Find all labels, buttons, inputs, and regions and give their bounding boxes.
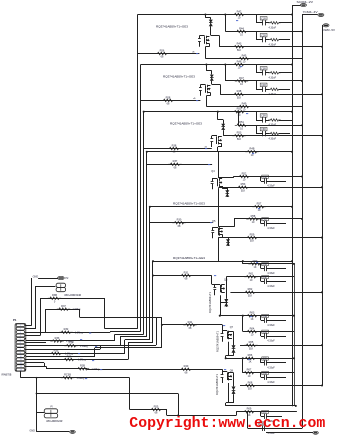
- resistor R3A: [76, 364, 100, 371]
- wire Q5 drain lead: [219, 207, 235, 227]
- svg-text:(P): (P): [50, 406, 53, 408]
- svg-text:R65: R65: [249, 340, 254, 344]
- wire block4 row3: [218, 186, 323, 188]
- capacitor C2A snubber: [256, 65, 292, 80]
- resistor R40 gate: [179, 364, 192, 374]
- resistor R45 source: [237, 53, 250, 63]
- label U2 part number: [163, 75, 196, 79]
- svg-text:R46: R46: [237, 59, 242, 63]
- svg-text:9: 9: [20, 352, 21, 354]
- label U6 part number: [173, 256, 206, 260]
- wire bundle line 1: [137, 15, 139, 329]
- wire block3 row2 feed: [238, 112, 240, 126]
- wire block2 row3: [220, 93, 323, 95]
- wire Q3 source lead: [218, 144, 222, 152]
- wire block1 row2: [225, 30, 303, 32]
- transistor Q1: [198, 36, 209, 47]
- wire Q2 source lead: [206, 93, 210, 107]
- resistor R68 51K: [243, 380, 256, 390]
- svg-text:Copyright:www.eccn.com: Copyright:www.eccn.com: [129, 416, 325, 432]
- wire block2 source row: [206, 106, 302, 108]
- svg-text:R67: R67: [247, 368, 252, 372]
- wire Q8 drain vertical: [233, 373, 235, 387]
- svg-text:RQ3741AB59+T1: RQ3741AB59+T1: [208, 291, 212, 313]
- wire block7 gate row: [162, 325, 223, 331]
- resistor R31 gate: [179, 270, 192, 280]
- wire block2 row2 feed: [225, 65, 227, 82]
- svg-text:1K: 1K: [249, 360, 252, 363]
- svg-text:R61: R61: [249, 272, 254, 276]
- wire block6 gate row: [152, 275, 215, 285]
- wire block1 top rail: [138, 13, 294, 15]
- svg-text:4.33uF: 4.33uF: [267, 272, 275, 275]
- wire bundle line 6: [152, 261, 154, 342]
- wire Q2 drain lead: [206, 65, 211, 71]
- label U6 vertical: [208, 291, 212, 313]
- capacitor C3F: [261, 275, 287, 288]
- capacitor C1B snubber: [256, 31, 290, 46]
- wire Q5 source lead: [218, 237, 220, 261]
- wire Q6 source lead: [219, 295, 221, 316]
- diode D1 tvs: [209, 19, 213, 26]
- svg-text:1K: 1K: [251, 318, 254, 321]
- label Q4 refdes: [211, 170, 215, 173]
- wire Q7 drain vertical: [233, 332, 235, 346]
- wire block3 top rail: [144, 111, 293, 113]
- svg-text:8: 8: [20, 349, 21, 351]
- connector P2: [58, 276, 69, 280]
- svg-text:4.33uF: 4.33uF: [267, 227, 275, 230]
- wire pin4 riser: [26, 298, 41, 335]
- resistor R52: [237, 171, 250, 181]
- wire block8 row3: [240, 384, 323, 386]
- svg-text:R3B: R3B: [52, 293, 57, 297]
- label P3 partnum: [46, 421, 63, 423]
- svg-text:C37: C37: [263, 412, 268, 414]
- wire block3 row3: [232, 135, 323, 137]
- wire block6 row2: [226, 276, 294, 278]
- connector P3 lower: [44, 406, 58, 418]
- svg-text:R3B: R3B: [80, 364, 85, 368]
- wire D4 links: [222, 186, 227, 197]
- svg-text:R53: R53: [237, 131, 242, 135]
- transistor Q8: [221, 372, 232, 384]
- wire Q3 drain to row3: [223, 120, 231, 136]
- svg-text:7: 7: [20, 346, 21, 348]
- svg-text:4: 4: [20, 335, 21, 337]
- svg-text:RQ3741AB59+T1+GE3: RQ3741AB59+T1+GE3: [156, 25, 189, 29]
- resistor R37 gate: [168, 159, 181, 169]
- wire route W2 pin3: [26, 332, 141, 333]
- wire route WB2: [130, 378, 168, 416]
- label block1 pin d: [192, 51, 195, 53]
- wire Q4 source lead: [218, 188, 220, 207]
- svg-text:1.0Meg: 1.0Meg: [77, 378, 85, 380]
- resistor R32: [59, 327, 83, 334]
- resistor R69 1K: [242, 407, 255, 417]
- diode D2 tvs: [210, 74, 214, 81]
- wire block5 top rail: [149, 206, 293, 208]
- wire bottom tag wire: [266, 432, 313, 434]
- svg-text:R42: R42: [237, 9, 242, 13]
- wire bottom row C3B2: [248, 412, 303, 429]
- transistor Q4: [211, 178, 222, 189]
- label GND top: [33, 276, 39, 279]
- label blue annotations: [78, 20, 260, 379]
- resistor R62 51K: [243, 287, 256, 297]
- svg-text:7CM4-.4V: 7CM4-.4V: [303, 10, 318, 14]
- svg-text:R33: R33: [55, 336, 60, 340]
- resistor R53b 51K: [236, 182, 249, 192]
- diode D6 tvs: [224, 299, 228, 307]
- wire block1 source row: [205, 58, 302, 60]
- svg-text:51K: 51K: [237, 138, 242, 141]
- label Q8 refdes: [230, 369, 234, 372]
- resistor R48 51K: [232, 89, 245, 99]
- diode D8 tvs: [232, 386, 236, 394]
- svg-text:R52: R52: [242, 171, 247, 175]
- svg-text:R64: R64: [250, 326, 255, 330]
- resistor R66 1K: [243, 353, 256, 363]
- svg-text:4.33uF: 4.33uF: [269, 137, 277, 140]
- wire block1 row2 feed: [225, 15, 227, 32]
- resistor R35: [49, 348, 73, 355]
- resistor R47: [235, 76, 248, 86]
- svg-text:R51: R51: [239, 120, 244, 124]
- capacitor C35: [261, 357, 287, 370]
- label P1 partnum: [2, 374, 12, 377]
- svg-text:11: 11: [20, 359, 22, 361]
- wire route W5 pin9: [26, 340, 150, 354]
- resistor R41 gate: [183, 320, 196, 330]
- svg-text:R37: R37: [61, 304, 66, 308]
- svg-text:R41: R41: [188, 320, 193, 324]
- wire pin12 stub: [26, 363, 45, 367]
- svg-text:13: 13: [20, 366, 22, 368]
- svg-text:51K: 51K: [248, 388, 253, 391]
- wire tag1 lead: [292, 5, 300, 7]
- wire net VCC bus: [292, 5, 294, 406]
- wire block4 top rail: [146, 151, 293, 153]
- resistor R58 gate: [161, 95, 174, 105]
- wire bundle line 2: [140, 65, 142, 332]
- svg-text:R56: R56: [160, 48, 165, 52]
- svg-text:RQ3741AB59+T1+GE3: RQ3741AB59+T1+GE3: [163, 75, 196, 79]
- wire Q1 drain to row3: [211, 18, 220, 47]
- label U3 part number: [170, 122, 203, 126]
- wire block7 row2 feed: [242, 316, 244, 332]
- label U1 part number: [156, 25, 189, 29]
- resistor R58b: [246, 214, 259, 224]
- capacitor C37: [261, 410, 283, 423]
- wire block7 row1: [220, 315, 295, 317]
- diode D4 tvs: [225, 190, 229, 197]
- wire route W0 pin3 riser: [26, 309, 46, 332]
- svg-text:1K: 1K: [254, 266, 257, 269]
- svg-text:1.0Meg: 1.0Meg: [92, 369, 100, 371]
- svg-text:C1R: C1R: [261, 18, 266, 20]
- wire route W1: [40, 298, 138, 329]
- svg-text:R43: R43: [237, 42, 242, 46]
- resistor R38 gate: [167, 143, 180, 153]
- resistor R59 51K: [245, 233, 258, 243]
- svg-text:C3B: C3B: [263, 316, 268, 318]
- wire route W8 pin10: [26, 348, 95, 357]
- resistor R53 51K: [232, 131, 245, 141]
- connector P3 upper: [56, 283, 66, 292]
- svg-text:C3C: C3C: [263, 264, 268, 266]
- wire D6 links: [221, 303, 227, 307]
- wire block7 row2: [232, 331, 294, 333]
- svg-text:51K: 51K: [241, 189, 246, 192]
- wire D7 links: [226, 353, 234, 356]
- svg-text:RC3B: RC3B: [64, 373, 71, 377]
- resistor RC3B: [61, 373, 85, 380]
- node 7CM4-.4V tag: [303, 10, 324, 17]
- wire block8 row2 feed: [242, 358, 244, 372]
- wire Q3 drain lead: [218, 112, 224, 120]
- svg-text:R47: R47: [239, 76, 244, 80]
- wire pin6 stub: [26, 342, 46, 344]
- svg-text:14: 14: [20, 369, 22, 371]
- node GND tag: [70, 430, 76, 433]
- diode D5 tvs: [226, 239, 230, 246]
- wire block6 top rail: [152, 260, 293, 262]
- wire GND to P2: [38, 278, 58, 280]
- wire block1 gate row: [138, 53, 200, 55]
- svg-text:4.33uF: 4.33uF: [267, 366, 275, 369]
- wire tag2 lead: [302, 14, 318, 16]
- wire D8 links: [226, 394, 234, 403]
- label block3 pin d: [205, 146, 208, 148]
- svg-text:C2R: C2R: [261, 35, 266, 37]
- label U7 vertical: [216, 330, 220, 352]
- connector P1: [13, 318, 26, 371]
- wire block3 row2: [238, 124, 303, 126]
- resistor R63 1K: [245, 311, 258, 321]
- wire block6 row1: [243, 263, 295, 265]
- resistor R37b: [57, 304, 81, 311]
- svg-text:6: 6: [20, 342, 21, 344]
- svg-text:R4B: R4B: [250, 147, 255, 151]
- svg-text:R37: R37: [173, 159, 178, 163]
- resistor R34: [64, 341, 88, 348]
- svg-text:4.33uF: 4.33uF: [269, 77, 277, 80]
- wire bottom jog: [167, 394, 237, 417]
- resistor R55: [149, 404, 162, 414]
- svg-text:51K: 51K: [249, 347, 254, 350]
- svg-text:RQ3741AB59+T1: RQ3741AB59+T1: [215, 373, 219, 395]
- capacitor C36: [261, 371, 287, 384]
- capacitor C40: [261, 175, 287, 188]
- svg-text:RQ3741AB59+T1: RQ3741AB59+T1: [216, 330, 220, 352]
- svg-text:C34: C34: [263, 332, 268, 334]
- svg-text:4.33uF: 4.33uF: [267, 285, 275, 288]
- wire P1 pin stubs: [25, 326, 26, 370]
- svg-text:RQ3741AB59+T1+GE3: RQ3741AB59+T1+GE3: [173, 201, 206, 205]
- label U8 vertical: [215, 373, 219, 395]
- svg-text:R59: R59: [250, 233, 255, 237]
- svg-text:C36: C36: [263, 373, 268, 375]
- node OWR-.5V tag: [323, 24, 336, 32]
- svg-text:R66: R66: [248, 353, 253, 357]
- node bottom tag: [313, 431, 318, 434]
- diode D7 tvs: [232, 345, 236, 353]
- wire block7 row3: [240, 344, 323, 346]
- wire bundle line 5: [149, 207, 151, 340]
- svg-text:R31: R31: [184, 270, 189, 274]
- resistor R44: [235, 26, 248, 36]
- wire net PWM bus: [302, 15, 304, 429]
- svg-text:5: 5: [20, 339, 21, 341]
- wire block7 gate feed: [156, 318, 163, 326]
- svg-text:R68: R68: [248, 380, 253, 384]
- label copyright watermark: [129, 416, 325, 432]
- svg-text:R40: R40: [184, 364, 189, 368]
- svg-text:R44: R44: [239, 26, 244, 30]
- wire block2 row2: [225, 80, 303, 82]
- svg-text:OWR-.5V: OWR-.5V: [323, 28, 336, 32]
- svg-text:R32: R32: [64, 327, 69, 331]
- svg-text:R38: R38: [172, 143, 177, 147]
- wire block6 row2 feed: [242, 261, 244, 264]
- wire route W3 pin5: [26, 334, 144, 341]
- wire Q4 drain lead: [218, 152, 233, 178]
- node junction B3 top: [143, 111, 145, 113]
- svg-text:R57: R57: [257, 202, 262, 206]
- svg-text:1.0Meg: 1.0Meg: [78, 360, 86, 362]
- wire route WC: [36, 393, 178, 395]
- svg-text:RQ3741AB59+T1+GE3: RQ3741AB59+T1+GE3: [173, 256, 206, 260]
- wire route WA pin14: [26, 366, 87, 368]
- transistor Q2: [199, 85, 210, 96]
- resistor R61b: [244, 272, 257, 282]
- resistor R4B drain: [245, 147, 258, 157]
- resistor R46 drain: [232, 59, 245, 69]
- label GND bottom: [30, 429, 36, 432]
- wire Q6 drain vertical: [226, 277, 228, 299]
- label block2 pin d: [193, 98, 196, 100]
- wire route W0 upper: [45, 309, 156, 317]
- wire D5 links: [223, 235, 229, 246]
- wire block2 top rail: [141, 63, 293, 65]
- wire Q7 source lead: [225, 342, 229, 360]
- capacitor C34: [261, 330, 287, 343]
- svg-text:12: 12: [20, 363, 22, 365]
- resistor R3B w1: [48, 293, 61, 303]
- svg-text:R58: R58: [166, 95, 171, 99]
- resistor R57 drain: [252, 202, 265, 212]
- svg-text:51K: 51K: [237, 49, 242, 52]
- resistor R36: [62, 354, 86, 361]
- svg-text:51K: 51K: [237, 96, 242, 99]
- wire block5 row2: [234, 218, 303, 220]
- wire pin1 riser: [26, 278, 32, 326]
- wire pin2 riser: [26, 286, 56, 329]
- svg-text:4.33uF: 4.33uF: [268, 433, 276, 435]
- wire block4 gate row: [147, 164, 212, 166]
- wire bundle line 4: [146, 152, 148, 337]
- svg-text:1.0Meg: 1.0Meg: [75, 332, 83, 334]
- svg-text:WDI+RRR324R: WDI+RRR324R: [64, 294, 81, 297]
- svg-text:1.0Meg: 1.0Meg: [73, 309, 81, 311]
- svg-text:4.33uF: 4.33uF: [269, 43, 277, 46]
- svg-text:C3R: C3R: [261, 68, 266, 70]
- wire block5 row3: [219, 237, 323, 239]
- wire block3 gate row: [144, 148, 212, 150]
- wire block4 row2: [233, 176, 303, 178]
- svg-text:P1: P1: [13, 318, 17, 322]
- label Q5 refdes: [212, 220, 216, 223]
- transistor Q7: [221, 331, 232, 342]
- wire route W7 pin8: [26, 345, 156, 349]
- capacitor C2B snubber: [256, 81, 290, 96]
- wire block8 row1: [226, 357, 295, 359]
- wire net return bus: [294, 264, 296, 406]
- capacitor C3B: [261, 314, 287, 327]
- wire bundle corner 8: [95, 347, 159, 349]
- svg-text:C35: C35: [263, 359, 268, 361]
- node SCM4-.2V tag: [297, 0, 314, 7]
- resistor R65 51K: [244, 340, 257, 350]
- wire Q1 source lead: [205, 44, 209, 59]
- capacitor C3B2: [259, 422, 276, 435]
- resistor R60 1K: [248, 259, 261, 269]
- svg-text:R55: R55: [154, 404, 159, 408]
- svg-text:C3F: C3F: [263, 277, 268, 279]
- resistor R42 drain: [232, 9, 245, 19]
- svg-text:R58: R58: [251, 214, 256, 218]
- wire net OUT bus: [322, 25, 324, 385]
- svg-text:4.33uF: 4.33uF: [269, 27, 277, 30]
- capacitor C3C: [261, 263, 287, 276]
- transistor Q6: [213, 284, 224, 295]
- wire route W6 pin11: [26, 342, 153, 359]
- resistor R30 gate: [172, 218, 185, 228]
- resistor R33: [50, 336, 74, 343]
- svg-text:C5R: C5R: [261, 116, 266, 118]
- wire block1 row3: [219, 46, 323, 48]
- svg-text:1: 1: [20, 325, 21, 327]
- wire P3 riser: [36, 377, 38, 432]
- wire block8 row2: [232, 372, 294, 374]
- resistor R56 gate: [155, 48, 168, 58]
- wire GND tag wire: [37, 431, 70, 433]
- svg-text:10: 10: [20, 356, 22, 358]
- resistor R50 drain: [232, 107, 245, 117]
- svg-text:4.33uF: 4.33uF: [267, 381, 275, 384]
- svg-text:Q4: Q4: [211, 170, 215, 173]
- svg-text:IRAB70B: IRAB70B: [2, 374, 12, 377]
- wire P3 stub: [37, 412, 45, 414]
- svg-text:C4R: C4R: [261, 85, 266, 87]
- wire Q2 drain to row3: [212, 71, 221, 94]
- wire tag3 lead: [322, 25, 323, 27]
- svg-text:4.33uF: 4.33uF: [269, 124, 277, 127]
- svg-text:GND: GND: [33, 276, 39, 279]
- svg-text:R62: R62: [248, 287, 253, 291]
- resistor R64: [245, 326, 258, 336]
- label Q6 refdes: [224, 279, 228, 282]
- wire route W4 pin7: [26, 337, 147, 346]
- svg-text:R45: R45: [242, 53, 247, 57]
- capacitor C3A snubber: [256, 112, 292, 127]
- transistor Q5: [211, 227, 222, 238]
- svg-text:RQ3741AB59+T1+GE3: RQ3741AB59+T1+GE3: [170, 122, 203, 126]
- svg-text:C41: C41: [263, 219, 268, 221]
- svg-text:4.33uF: 4.33uF: [267, 340, 275, 343]
- svg-text:WDI+RRR324R: WDI+RRR324R: [46, 421, 63, 423]
